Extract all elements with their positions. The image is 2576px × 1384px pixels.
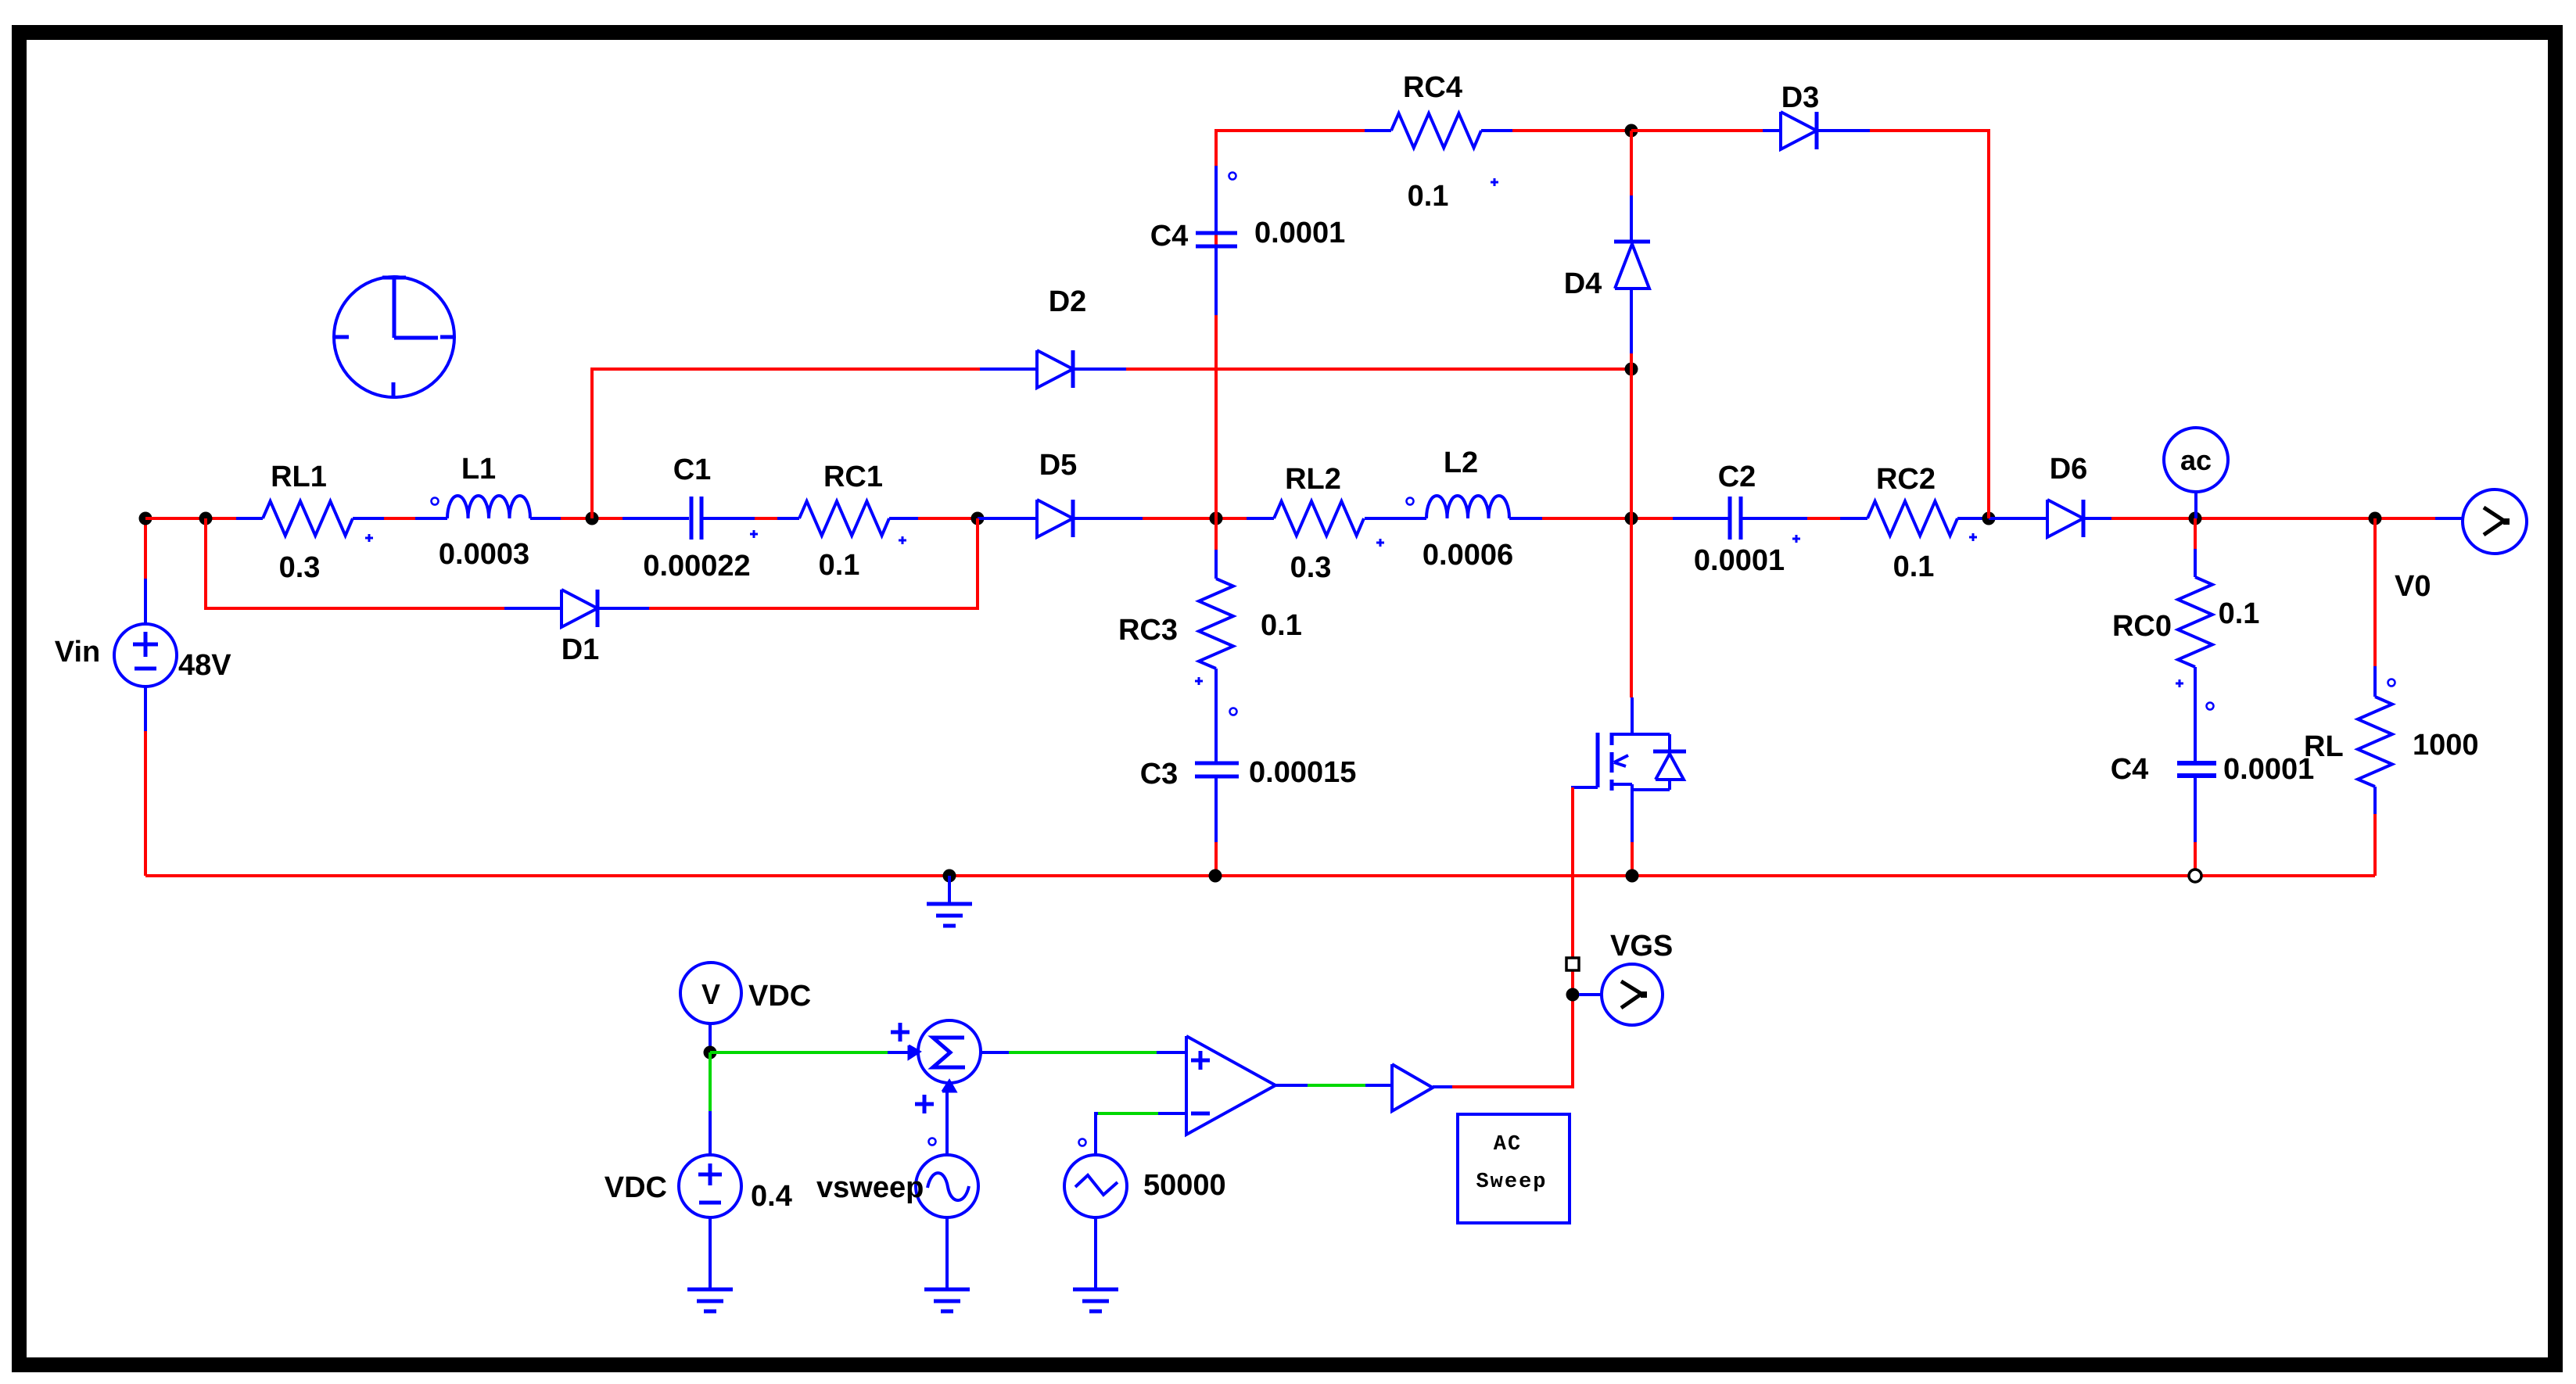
- transistor Q1 MOSFET: [1631, 697, 1634, 734]
- ac sweep probe: [2164, 428, 2228, 492]
- wire C4 output to rail: [2194, 842, 2197, 876]
- op-amp comparator: [1186, 1036, 1275, 1135]
- wire bottom rail: [145, 874, 2375, 877]
- svg-text:D5: D5: [1039, 449, 1078, 482]
- source vsweep: [916, 1155, 978, 1217]
- svg-text:RC0: RC0: [2112, 610, 2172, 643]
- wire D2 right: [1126, 368, 1631, 371]
- wire VDC green riser: [709, 1052, 712, 1111]
- svg-text:D6: D6: [2050, 453, 2088, 486]
- diode D1: [504, 607, 561, 610]
- node control VDC: [704, 1046, 717, 1060]
- wire D1 left: [206, 518, 504, 608]
- svg-text:0.00015: 0.00015: [1249, 756, 1356, 789]
- buffer gate: [1392, 1064, 1433, 1111]
- svg-text:vsweep: vsweep: [816, 1171, 924, 1204]
- wire RL1-L1 segment: [384, 517, 415, 520]
- svg-text:VGS: VGS: [1610, 930, 1673, 963]
- svg-text:0.1: 0.1: [1261, 609, 1302, 642]
- diode D3: [1763, 129, 1781, 132]
- resistor RL1: [236, 517, 263, 520]
- resistor RC1: [777, 517, 799, 520]
- source VDC 0.4: [679, 1155, 741, 1217]
- wire vsweep to ground: [945, 1217, 949, 1289]
- svg-text:0.0006: 0.0006: [1423, 539, 1513, 572]
- wire D6-output segment: [2111, 517, 2435, 520]
- svg-text:1000: 1000: [2413, 729, 2479, 762]
- wire C1-RC1 segment: [755, 517, 777, 520]
- svg-text:RC2: RC2: [1876, 463, 1936, 496]
- capacitor C4 (output): [2177, 761, 2216, 766]
- svg-text:VDC: VDC: [605, 1171, 667, 1204]
- svg-text:0.1: 0.1: [2219, 597, 2260, 630]
- node Vin top: [139, 512, 152, 525]
- resistor RC4: [1365, 129, 1391, 132]
- node L1-C1-D2: [586, 512, 599, 525]
- svg-text:0.1: 0.1: [1893, 550, 1935, 583]
- wire node A segment: [145, 517, 236, 520]
- svg-text:0.3: 0.3: [1290, 551, 1332, 584]
- diode D5: [978, 517, 1037, 520]
- svg-text:0.0003: 0.0003: [439, 538, 529, 571]
- svg-text:0.00022: 0.00022: [643, 550, 750, 583]
- svg-text:48V: 48V: [178, 649, 231, 682]
- wire C3 to bottom rail: [1214, 842, 1218, 876]
- svg-text:C3: C3: [1140, 758, 1179, 791]
- wire D4 bottom stub: [1630, 353, 1633, 369]
- svg-text:V0: V0: [2395, 570, 2431, 603]
- wire D4 top stub: [1630, 131, 1633, 195]
- wire top rail left: [1216, 131, 1365, 315]
- svg-text:C4: C4: [2111, 753, 2149, 786]
- wire L1-C1 node segment: [561, 517, 622, 520]
- svg-text:50000: 50000: [1143, 1169, 1226, 1202]
- ground 50000: [1073, 1288, 1118, 1292]
- wire D4 node to rail: [1630, 369, 1633, 518]
- svg-text:D1: D1: [561, 633, 600, 666]
- node top rail D4: [1625, 124, 1638, 138]
- wire 50000 to opamp: [1096, 1113, 1098, 1155]
- wire D1 right: [649, 518, 978, 608]
- svg-text:0.0001: 0.0001: [2223, 753, 2314, 786]
- plus sign summer bottom: [915, 1103, 934, 1106]
- diode D4: [1630, 195, 1633, 242]
- capacitor C4 (top): [1214, 166, 1218, 231]
- node VGS: [1566, 988, 1580, 1002]
- wire RC1-D5 segment: [918, 517, 978, 520]
- wire opamp output: [1275, 1084, 1308, 1087]
- wire Vin top: [144, 518, 147, 579]
- capacitor C3: [1214, 719, 1218, 762]
- wire RC0 red stub: [2194, 518, 2197, 549]
- wire RL red stub: [2373, 518, 2377, 666]
- wire node to D3: [1631, 129, 1763, 132]
- node C3 bottom: [1209, 869, 1222, 883]
- ground VDC: [687, 1288, 733, 1292]
- svg-text:Sweep: Sweep: [1476, 1171, 1547, 1194]
- resistor RL: [2373, 666, 2377, 697]
- svg-text:AC: AC: [1494, 1133, 1522, 1156]
- svg-text:ac: ac: [2180, 444, 2212, 476]
- AC Sweep box: [1458, 1114, 1570, 1223]
- svg-text:0.0001: 0.0001: [1694, 544, 1785, 577]
- node D5-RL2-RC3-C4: [1210, 512, 1223, 525]
- diode D2: [980, 368, 1037, 371]
- svg-text:RL2: RL2: [1285, 463, 1341, 496]
- capacitor C1: [622, 517, 689, 520]
- resistor RC3: [1214, 550, 1218, 579]
- wire VDC to ground: [709, 1217, 712, 1289]
- svg-text:D2: D2: [1049, 285, 1087, 318]
- wire 50000 to ground: [1094, 1217, 1097, 1289]
- node D2-D4: [1625, 363, 1638, 376]
- wire node to summer: [710, 1051, 888, 1054]
- voltmeter VDC: [680, 963, 741, 1024]
- wire source to bottom rail: [1631, 842, 1634, 876]
- node ground: [943, 869, 956, 883]
- capacitor C2: [1673, 517, 1728, 520]
- svg-text:RC3: RC3: [1118, 614, 1178, 647]
- svg-text:D4: D4: [1564, 267, 1602, 300]
- svg-text:0.4: 0.4: [751, 1180, 792, 1213]
- svg-text:RC1: RC1: [823, 461, 883, 493]
- svg-text:0.1: 0.1: [819, 549, 860, 582]
- wire RL to bottom rail: [2373, 814, 2377, 876]
- source square 50000: [1064, 1155, 1127, 1217]
- svg-text:D3: D3: [1781, 81, 1820, 114]
- voltage source Vin: [114, 624, 177, 687]
- node ac probe: [2189, 512, 2202, 525]
- ground vsweep: [924, 1288, 970, 1292]
- svg-text:Vin: Vin: [55, 636, 100, 669]
- wire C4 bottom to rail: [1214, 315, 1218, 518]
- wire D5-node segment: [1143, 517, 1247, 520]
- svg-text:V: V: [701, 978, 720, 1010]
- voltmeter V0 output: [2435, 517, 2463, 520]
- wire drain from rail: [1630, 518, 1633, 697]
- wire buffer to gate: [1433, 1085, 1452, 1088]
- svg-text:C1: C1: [673, 454, 712, 486]
- node output V0: [2369, 512, 2382, 525]
- svg-text:L1: L1: [461, 453, 496, 486]
- wire L2-node segment: [1542, 517, 1673, 520]
- clock symbol: [334, 277, 454, 397]
- wire Vin bottom to rail: [144, 731, 147, 876]
- diode D6: [1989, 517, 2047, 520]
- svg-text:0.0001: 0.0001: [1254, 217, 1345, 249]
- svg-text:RC4: RC4: [1403, 71, 1462, 104]
- node RC1-D5-D1: [971, 512, 985, 525]
- svg-text:VDC: VDC: [748, 980, 811, 1013]
- svg-text:RL1: RL1: [271, 461, 327, 493]
- node source bottom: [1626, 869, 1639, 883]
- svg-text:C4: C4: [1150, 220, 1189, 253]
- wire D2 left riser: [592, 369, 980, 518]
- inductor L1: [415, 517, 447, 520]
- resistor RC0: [2194, 549, 2197, 577]
- wire C4 red top stub: [1214, 131, 1218, 166]
- wire D3 to output node: [1870, 131, 1989, 518]
- resistor RC2: [1840, 517, 1867, 520]
- inductor L2: [1426, 496, 1509, 518]
- wire RC4 to node: [1512, 129, 1631, 132]
- wire C2-RC2 segment: [1807, 517, 1840, 520]
- svg-text:0.1: 0.1: [1408, 180, 1449, 213]
- wire summer to opamp: [981, 1051, 1009, 1054]
- ground symbol (main): [948, 876, 951, 904]
- plus sign summer left: [891, 1031, 909, 1034]
- summer block: [918, 1020, 981, 1083]
- node RC2-D6-D3: [1982, 512, 1996, 525]
- node L2-C2-D4-MOSFET: [1625, 512, 1638, 525]
- node open terminal: [2189, 869, 2201, 882]
- resistor RL2: [1247, 517, 1274, 520]
- svg-text:L2: L2: [1444, 446, 1478, 479]
- svg-text:0.3: 0.3: [279, 551, 321, 584]
- voltmeter VGS: [1579, 993, 1602, 996]
- gate open square: [1566, 958, 1579, 970]
- wire vsweep to summer: [945, 1083, 949, 1155]
- wire RC3 red stub: [1214, 518, 1218, 550]
- svg-text:RL: RL: [2304, 730, 2344, 763]
- node D1 branch: [199, 512, 213, 525]
- svg-text:C2: C2: [1718, 461, 1756, 493]
